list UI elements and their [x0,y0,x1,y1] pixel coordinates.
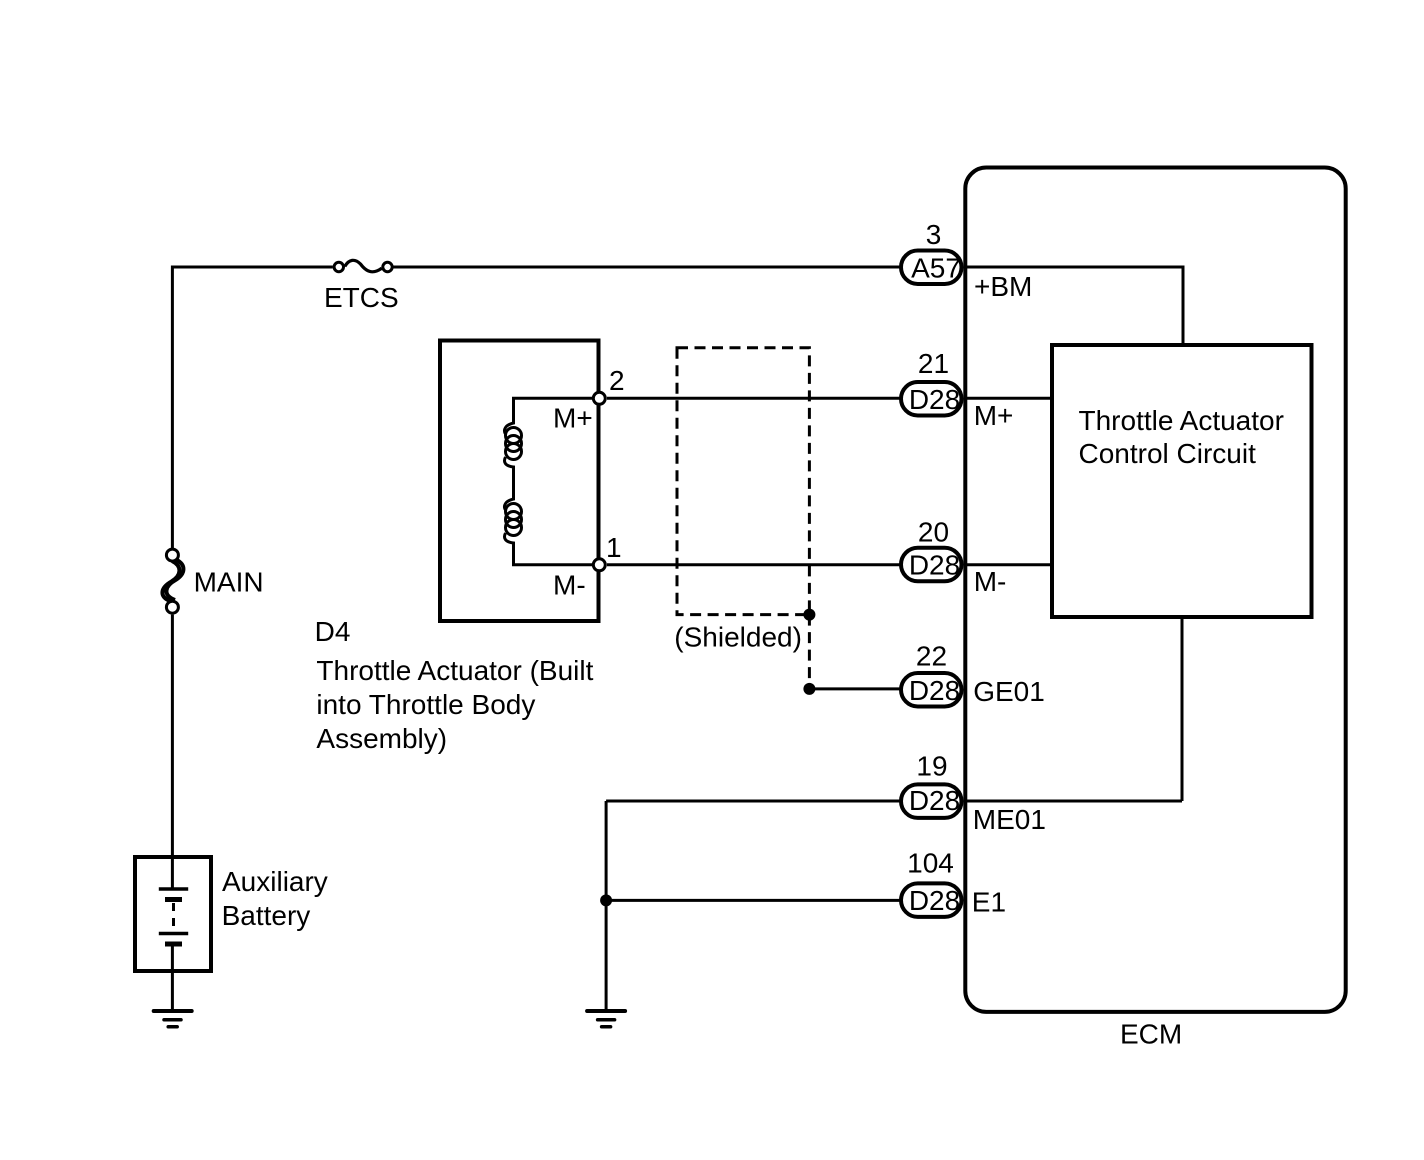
svg-text:Battery: Battery [222,900,311,931]
svg-text:D28: D28 [909,384,960,415]
svg-text:D28: D28 [909,885,960,916]
svg-text:ETCS: ETCS [324,282,399,313]
svg-text:M+: M+ [553,403,593,434]
svg-text:21: 21 [918,348,949,379]
svg-text:ME01: ME01 [973,804,1046,835]
svg-text:D4: D4 [315,616,351,647]
svg-text:ECM: ECM [1120,1018,1182,1049]
svg-text:20: 20 [918,516,949,547]
svg-text:M-: M- [974,566,1007,597]
svg-text:Assembly): Assembly) [316,723,447,754]
svg-text:A57: A57 [911,253,961,284]
svg-text:Auxiliary: Auxiliary [222,866,328,897]
svg-text:M-: M- [553,570,586,601]
svg-text:Throttle Actuator (Built: Throttle Actuator (Built [316,655,593,686]
svg-text:1: 1 [606,532,622,563]
svg-text:19: 19 [916,751,947,782]
svg-text:into Throttle Body: into Throttle Body [316,689,535,720]
svg-text:D28: D28 [909,675,960,706]
svg-text:E1: E1 [972,887,1006,918]
svg-text:3: 3 [926,219,942,250]
svg-text:D28: D28 [909,785,960,816]
svg-text:Throttle Actuator: Throttle Actuator [1079,405,1284,436]
svg-text:22: 22 [916,641,947,672]
svg-text:(Shielded): (Shielded) [674,622,802,653]
svg-text:GE01: GE01 [973,676,1045,707]
svg-text:M+: M+ [974,400,1014,431]
svg-text:+BM: +BM [974,271,1032,302]
svg-text:Control Circuit: Control Circuit [1079,438,1257,469]
svg-text:D28: D28 [909,550,960,581]
svg-text:104: 104 [907,847,954,878]
svg-text:MAIN: MAIN [194,567,264,598]
svg-text:2: 2 [609,365,625,396]
